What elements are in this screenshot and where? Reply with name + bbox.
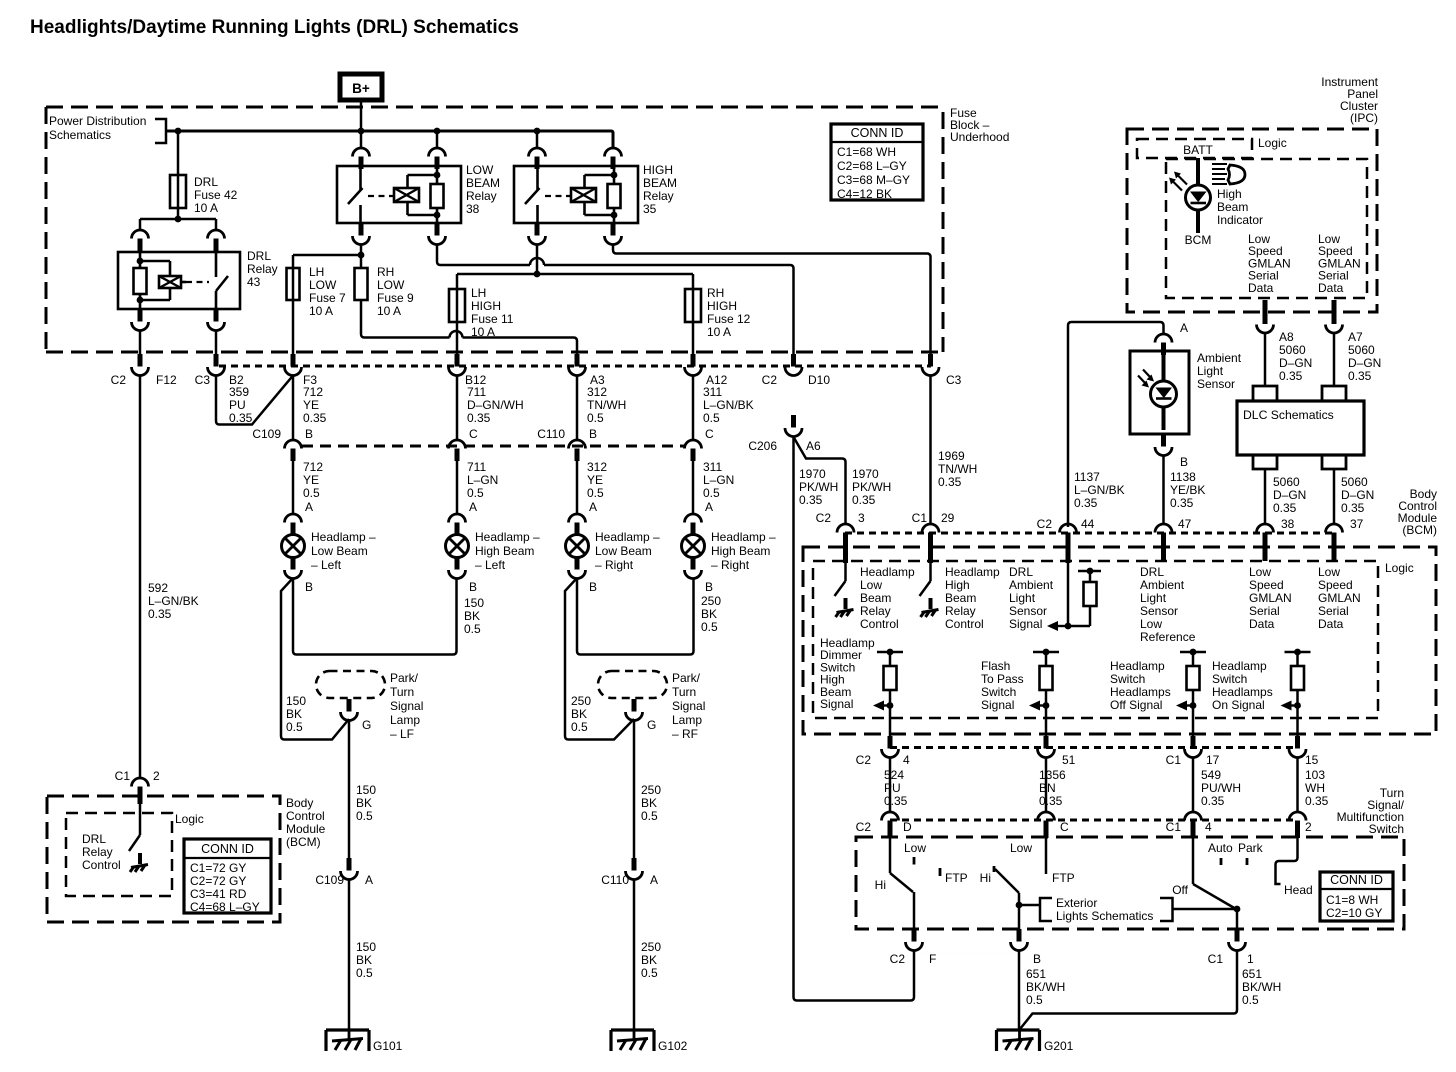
connector TSMF pin C: [1038, 812, 1070, 838]
connector fuse block pin D10: [785, 354, 802, 376]
svg-text:C2=10 GY: C2=10 GY: [1326, 906, 1382, 920]
TSMF dashed border: [856, 837, 1404, 929]
svg-text:0.5: 0.5: [703, 486, 720, 500]
svg-text:RH: RH: [707, 286, 724, 300]
svg-text:Light: Light: [1140, 591, 1167, 605]
connector pin C high beam left: [449, 427, 479, 461]
DLC terminal tab top-right: [1322, 386, 1346, 401]
lamp park/turn LF label: [390, 671, 423, 741]
svg-text:HIGH: HIGH: [471, 299, 501, 313]
wire 1970 label right: [852, 467, 891, 507]
svg-text:Module: Module: [286, 822, 326, 836]
connector BCM pin C1-29: [912, 511, 955, 563]
pin label B12: [465, 373, 487, 387]
BCM headlamps off label: [1110, 659, 1171, 712]
svg-text:LOW: LOW: [377, 278, 405, 292]
svg-text:C1: C1: [1166, 820, 1182, 834]
svg-text:L–GN/BK: L–GN/BK: [148, 594, 199, 608]
wire 712 label low beam left: [303, 460, 323, 500]
svg-text:G102: G102: [658, 1039, 688, 1053]
connector headlamp pin A low beam right: [569, 500, 598, 535]
svg-text:Headlamps: Headlamps: [1212, 685, 1273, 699]
TSMF connector row dotted line: [890, 819, 1298, 822]
svg-text:C: C: [705, 427, 714, 441]
wire 150 BK label LF-2: [356, 940, 376, 980]
svg-text:3: 3: [858, 511, 865, 525]
svg-text:Headlamps: Headlamps: [1110, 685, 1171, 699]
svg-text:1137: 1137: [1074, 470, 1100, 484]
svg-text:Low Beam: Low Beam: [311, 544, 368, 558]
connector C109 pin A: [315, 858, 373, 887]
TSMF headlamp switch: [1193, 838, 1298, 929]
svg-text:B: B: [1180, 455, 1188, 469]
junction dot fuse9 bar: [358, 252, 365, 259]
wire 1137 L-GN/BK: [1068, 322, 1164, 527]
wire fuse 12 to A12: [692, 322, 695, 354]
wire 651 label right: [1242, 967, 1281, 1007]
svg-text:BK: BK: [356, 953, 372, 967]
connector BCM pin 37: [1326, 517, 1364, 561]
svg-text:C2: C2: [856, 820, 872, 834]
wire 1138 YE/BK: [1162, 455, 1165, 524]
TSMF off contact label: [1172, 883, 1188, 897]
pin label C3 B2: [195, 373, 244, 387]
svg-text:1970: 1970: [852, 467, 879, 481]
svg-text:0.5: 0.5: [1026, 993, 1043, 1007]
svg-text:250: 250: [641, 940, 661, 954]
svg-text:C3: C3: [946, 373, 962, 387]
svg-text:BK/WH: BK/WH: [1242, 980, 1281, 994]
svg-text:A: A: [469, 500, 477, 514]
BCM logic dashed box: [813, 561, 1378, 718]
svg-text:CONN ID: CONN ID: [1330, 873, 1383, 887]
svg-text:Data: Data: [1318, 281, 1344, 295]
svg-text:GMLAN: GMLAN: [1249, 591, 1292, 605]
svg-text:Reference: Reference: [1140, 630, 1196, 644]
connector headlamp pin B low beam right: [569, 557, 598, 594]
wire A8 to DLC: [1264, 333, 1267, 386]
DRL relay control label: [82, 832, 121, 872]
svg-text:D10: D10: [808, 373, 830, 387]
IPC GMLAN serial data label 2: [1318, 232, 1361, 295]
BCM DRL ambient light sensor signal circuit: [1047, 563, 1101, 631]
svg-text:PU/WH: PU/WH: [1201, 781, 1241, 795]
connector fuse block pin B2: [208, 354, 225, 376]
wire 250 BK label RF-1: [641, 783, 661, 823]
svg-text:G101: G101: [373, 1039, 403, 1053]
svg-text:0.5: 0.5: [701, 620, 718, 634]
wire 1138 label: [1170, 470, 1205, 510]
svg-text:Low: Low: [1140, 617, 1162, 631]
svg-text:0.5: 0.5: [286, 720, 303, 734]
svg-text:On Signal: On Signal: [1212, 698, 1265, 712]
ground G102: [611, 1030, 688, 1053]
pin label C3: [946, 373, 962, 387]
fuse 42 value label: [194, 175, 238, 215]
svg-text:L–GN: L–GN: [703, 473, 734, 487]
connector BCM pin 51: [1038, 736, 1076, 767]
svg-text:G: G: [647, 718, 656, 732]
svg-text:0.35: 0.35: [1074, 496, 1098, 510]
svg-text:Lights Schematics: Lights Schematics: [1056, 909, 1153, 923]
svg-text:51: 51: [1062, 753, 1076, 767]
svg-text:10 A: 10 A: [377, 304, 401, 318]
svg-text:C1: C1: [912, 511, 928, 525]
connector TSMF pin C2-F: [890, 929, 937, 966]
svg-text:D–GN: D–GN: [1341, 488, 1374, 502]
svg-text:BK/WH: BK/WH: [1026, 980, 1065, 994]
svg-text:D–GN: D–GN: [1273, 488, 1306, 502]
svg-text:4: 4: [903, 753, 910, 767]
svg-text:A6: A6: [806, 439, 821, 453]
wire DLC to BCM 38: [1264, 469, 1267, 524]
connector BCM pin C2-4: [856, 736, 910, 767]
high beam relay label: [643, 163, 677, 216]
svg-text:10 A: 10 A: [471, 325, 495, 339]
wire 549 PU/WH: [1192, 757, 1195, 812]
wire 712 YE lower low beam left: [292, 461, 295, 514]
svg-text:312: 312: [587, 460, 607, 474]
wire 311 L–GN/BK upper high beam right: [692, 375, 695, 440]
wire 150 BK high-left riser: [293, 578, 457, 655]
svg-text:Off Signal: Off Signal: [1110, 698, 1162, 712]
DLC terminal tab bottom-right: [1322, 455, 1346, 469]
wire 250 BK label RF-2: [641, 940, 661, 980]
TSMF head contact label: [1284, 883, 1313, 897]
svg-text:Low: Low: [904, 841, 926, 855]
svg-text:– Right: – Right: [711, 558, 750, 572]
svg-text:Low: Low: [1249, 565, 1271, 579]
svg-text:– RF: – RF: [672, 727, 698, 741]
svg-text:A: A: [589, 500, 597, 514]
svg-text:Switch: Switch: [981, 685, 1016, 699]
svg-text:L–GN: L–GN: [467, 473, 498, 487]
svg-text:0.5: 0.5: [703, 411, 720, 425]
svg-text:Low: Low: [1010, 841, 1032, 855]
svg-text:0.5: 0.5: [641, 966, 658, 980]
wire DRL relay to F12: [139, 330, 142, 354]
wire 5060 label 37: [1341, 475, 1374, 515]
svg-text:Control: Control: [82, 858, 121, 872]
svg-text:1969: 1969: [938, 449, 965, 463]
svg-text:A8: A8: [1279, 330, 1294, 344]
logic label: [175, 812, 204, 826]
fuse 7 value label: [309, 265, 346, 318]
wire 103 WH: [1296, 757, 1299, 812]
indicator lamp high beam: [1169, 172, 1211, 211]
svg-text:BK: BK: [286, 707, 302, 721]
svg-text:Signal: Signal: [1009, 617, 1042, 631]
BCM dashed border: [803, 547, 1436, 734]
connector IPC pin A7: [1326, 300, 1343, 333]
svg-text:Data: Data: [1249, 617, 1275, 631]
svg-text:L–GN/BK: L–GN/BK: [703, 398, 754, 412]
svg-text:B: B: [305, 427, 313, 441]
svg-text:43: 43: [247, 275, 261, 289]
TSMF flash to pass switch: [994, 838, 1046, 929]
ambient light sensor label: [1197, 351, 1242, 391]
svg-text:YE: YE: [303, 398, 319, 412]
svg-text:DRL: DRL: [1009, 565, 1033, 579]
svg-text:1138: 1138: [1170, 470, 1196, 484]
svg-text:Hi: Hi: [980, 871, 991, 885]
wire 712 label low beam left: [303, 385, 327, 425]
relay LOW BEAM Relay 38: [337, 166, 461, 223]
svg-text:PU: PU: [229, 398, 246, 412]
instrument panel cluster label: [1321, 75, 1378, 125]
TSMF ftp hi contact label: [980, 871, 991, 885]
wire 359 PU: [216, 375, 293, 425]
wire 1969 TN/WH: [929, 375, 932, 524]
high beam indicator icon: [1212, 164, 1245, 184]
svg-text:DRL: DRL: [1140, 565, 1164, 579]
wire high beam relay switch to fuse bar: [536, 244, 539, 274]
svg-text:D: D: [903, 820, 912, 834]
svg-text:(BCM): (BCM): [286, 835, 321, 849]
connector TSMF pin B: [1011, 929, 1042, 966]
title text: [30, 17, 519, 38]
svg-text:DRL: DRL: [247, 249, 271, 263]
svg-text:– Right: – Right: [595, 558, 634, 572]
wire 312 TN/WH upper low beam right: [576, 375, 579, 440]
svg-text:CONN ID: CONN ID: [851, 126, 904, 140]
svg-text:651: 651: [1242, 967, 1262, 981]
svg-text:250: 250: [571, 694, 591, 708]
BCM GMLAN label 1: [1249, 565, 1292, 631]
svg-text:Fuse 12: Fuse 12: [707, 312, 751, 326]
svg-text:A: A: [650, 873, 658, 887]
connector high beam relay pin top-left: [529, 131, 546, 169]
svg-text:250: 250: [701, 594, 721, 608]
svg-text:HIGH: HIGH: [707, 299, 737, 313]
connector high beam relay pin bottom-right: [605, 223, 622, 245]
svg-text:High: High: [1217, 187, 1242, 201]
svg-text:Ambient: Ambient: [1140, 578, 1185, 592]
connector TSMF pin C2-D: [856, 812, 912, 838]
relay HIGH BEAM Relay 35: [514, 166, 638, 223]
svg-text:B: B: [589, 427, 597, 441]
svg-text:G201: G201: [1044, 1039, 1074, 1053]
svg-text:1: 1: [1247, 952, 1254, 966]
connector BCM pin C1-17: [1166, 736, 1220, 767]
IPC logic label: [1258, 136, 1287, 150]
TSMF ftp contact label: [1052, 871, 1075, 885]
svg-text:150: 150: [464, 596, 484, 610]
svg-text:524: 524: [884, 768, 904, 782]
wire B+ to bus: [360, 100, 363, 131]
wire 150 BK label LF-1: [356, 783, 376, 823]
svg-text:HIGH: HIGH: [643, 163, 673, 177]
svg-text:10 A: 10 A: [194, 201, 218, 215]
BCM headlamps on label: [1212, 659, 1273, 712]
svg-text:GMLAN: GMLAN: [1318, 591, 1361, 605]
svg-text:0.35: 0.35: [467, 411, 491, 425]
wire 1356 BN: [1045, 757, 1048, 812]
svg-text:Headlights/Daytime Running Lig: Headlights/Daytime Running Lights (DRL) …: [30, 17, 519, 38]
lamp park/turn signal RF: [598, 671, 667, 698]
svg-text:5060: 5060: [1273, 475, 1300, 489]
connector headlamp pin B low beam left: [285, 557, 314, 594]
svg-text:0.5: 0.5: [587, 486, 604, 500]
wire 5060 A8 label: [1279, 330, 1312, 383]
sensor ambient light: [1130, 351, 1189, 434]
junction dot bus-fuse42: [175, 128, 182, 135]
wire 592 L-GN/BK: [139, 375, 142, 778]
svg-text:RH: RH: [377, 265, 394, 279]
low beam relay label: [466, 163, 500, 216]
svg-text:G: G: [362, 718, 371, 732]
svg-text:Beam: Beam: [860, 591, 891, 605]
headlamp connector row dashed line: [302, 445, 684, 448]
wire 1970 branch to BCM pin 3: [794, 437, 846, 524]
connector headlamp pin A low beam left: [285, 500, 314, 535]
svg-text:Beam: Beam: [945, 591, 976, 605]
connector BCM C1 pin 2: [115, 769, 160, 804]
svg-text:Relay: Relay: [247, 262, 278, 276]
svg-text:0.5: 0.5: [356, 809, 373, 823]
node B+ bus wire: [166, 131, 613, 148]
svg-text:29: 29: [941, 511, 955, 525]
wire 311 label high beam right: [703, 460, 734, 500]
power distribution schematics label: [49, 114, 166, 143]
svg-text:Serial: Serial: [1249, 604, 1280, 618]
svg-text:BK: BK: [571, 707, 587, 721]
TSMF park contact label: [1238, 841, 1264, 855]
svg-text:BN: BN: [1039, 781, 1056, 795]
headlamp label low beam right: [595, 530, 660, 572]
BCM flash to pass switch signal circuit: [1029, 649, 1059, 736]
svg-text:712: 712: [303, 385, 323, 399]
svg-text:38: 38: [466, 202, 480, 216]
svg-text:0.5: 0.5: [303, 486, 320, 500]
svg-text:0.35: 0.35: [148, 607, 172, 621]
svg-text:A7: A7: [1348, 330, 1363, 344]
lamp park/turn RF label: [672, 671, 705, 741]
svg-text:0.35: 0.35: [1170, 496, 1194, 510]
connector park lamp LF pin G: [341, 699, 372, 732]
fuse 12 RH HIGH: [685, 289, 701, 322]
wire 711 label high beam left: [467, 460, 498, 500]
svg-text:Indicator: Indicator: [1217, 213, 1263, 227]
svg-text:C1=8 WH: C1=8 WH: [1326, 893, 1378, 907]
wire A7 to DLC: [1333, 333, 1336, 386]
turn signal multifunction switch label: [1337, 786, 1405, 836]
connector fuse block pin A12: [685, 354, 702, 376]
svg-text:Control: Control: [945, 617, 984, 631]
svg-text:DLC Schematics: DLC Schematics: [1243, 408, 1334, 422]
svg-text:2: 2: [1305, 820, 1312, 834]
IPC indicator dashed box: [1166, 159, 1367, 298]
svg-text:High Beam: High Beam: [711, 544, 770, 558]
svg-text:BK: BK: [464, 609, 480, 623]
svg-text:Sensor: Sensor: [1009, 604, 1047, 618]
svg-text:Headlamp –: Headlamp –: [711, 530, 776, 544]
svg-text:CONN ID: CONN ID: [201, 842, 254, 856]
fuse block CONN ID table: [831, 124, 923, 201]
svg-text:– LF: – LF: [390, 727, 414, 741]
wire 103 label: [1305, 768, 1329, 808]
svg-text:Headlamp –: Headlamp –: [595, 530, 660, 544]
svg-text:C2: C2: [816, 511, 832, 525]
svg-text:PU: PU: [884, 781, 901, 795]
wire high beam relay coil to C3: [613, 244, 931, 354]
wire 524 label: [884, 768, 908, 808]
svg-text:Headlamp –: Headlamp –: [311, 530, 376, 544]
fuse 9 RH LOW: [355, 268, 368, 300]
svg-text:YE: YE: [587, 473, 603, 487]
svg-text:150: 150: [356, 783, 376, 797]
svg-text:Lamp: Lamp: [672, 713, 702, 727]
BCM low beam relay control label: [860, 565, 915, 631]
BATT label: [1183, 143, 1213, 157]
svg-text:0.35: 0.35: [229, 411, 253, 425]
wire 1970 label left: [799, 467, 838, 507]
svg-text:Data: Data: [1248, 281, 1274, 295]
svg-text:Control: Control: [860, 617, 899, 631]
svg-text:Signal: Signal: [820, 697, 853, 711]
svg-text:Low: Low: [860, 578, 882, 592]
svg-text:Switch: Switch: [1369, 822, 1404, 836]
bulb headlamp high beam right: [682, 535, 705, 558]
BCM logic label: [1385, 561, 1414, 575]
wire 312 label low beam right: [587, 385, 626, 425]
connector TSMF pin C1-1: [1208, 929, 1254, 966]
connector low beam relay pin top-left: [353, 131, 370, 169]
svg-text:Speed: Speed: [1249, 578, 1284, 592]
svg-text:C4=68 L–GY: C4=68 L–GY: [190, 900, 260, 914]
svg-text:C206: C206: [748, 439, 777, 453]
BCM node label: [1185, 233, 1212, 247]
svg-text:250: 250: [641, 783, 661, 797]
svg-text:712: 712: [303, 460, 323, 474]
svg-text:0.5: 0.5: [587, 411, 604, 425]
svg-text:5060: 5060: [1279, 343, 1306, 357]
svg-text:Headlamp: Headlamp: [1212, 659, 1267, 673]
body control module label: [1398, 487, 1438, 537]
BCM lower-left dashed border: [47, 796, 280, 922]
BCM flash to pass label: [981, 659, 1024, 712]
svg-text:A: A: [705, 500, 713, 514]
connector high beam relay pin top-right: [605, 131, 622, 169]
svg-text:0.35: 0.35: [1039, 794, 1063, 808]
svg-text:BEAM: BEAM: [466, 176, 500, 190]
wire RF ground upper: [633, 719, 636, 858]
svg-text:A: A: [365, 873, 373, 887]
connector BCM pin C2-44: [1037, 517, 1095, 563]
BCM DRL ambient light sensor low reference label: [1140, 565, 1196, 644]
svg-text:Sensor: Sensor: [1140, 604, 1178, 618]
pin label F3: [303, 373, 317, 387]
svg-text:1970: 1970: [799, 467, 826, 481]
svg-text:F12: F12: [156, 373, 177, 387]
svg-text:1356: 1356: [1039, 768, 1066, 782]
wire 651 BK/WH left: [1018, 950, 1021, 1030]
svg-text:B: B: [305, 580, 313, 594]
TSMF ftp low contact label: [1010, 841, 1032, 855]
BCM headlamps on signal circuit: [1281, 649, 1311, 736]
svg-text:C4=12 BK: C4=12 BK: [837, 187, 892, 201]
svg-text:0.5: 0.5: [1242, 993, 1259, 1007]
svg-text:Ambient: Ambient: [1197, 351, 1242, 365]
svg-text:Auto: Auto: [1208, 841, 1233, 855]
svg-text:Logic: Logic: [175, 812, 204, 826]
svg-text:C110: C110: [537, 427, 565, 441]
svg-text:0.5: 0.5: [641, 809, 658, 823]
connector fuse block pin A3: [569, 354, 586, 376]
svg-text:– Left: – Left: [311, 558, 342, 572]
junction dot bus-lowrelay-coil: [434, 128, 441, 135]
connector DRL relay pin bottom-right: [208, 309, 225, 331]
